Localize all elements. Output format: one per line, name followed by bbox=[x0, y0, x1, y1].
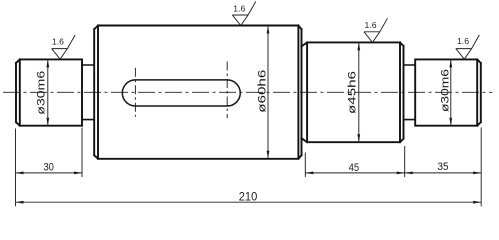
svg-text:ø45h6: ø45h6 bbox=[346, 71, 358, 114]
svg-text:1.6: 1.6 bbox=[233, 4, 245, 14]
dimension text 35 bbox=[438, 161, 449, 173]
extension line at left face bbox=[15, 129, 17, 207]
keyway right arc vertical centerline bbox=[226, 62, 228, 119]
diameter dimension line ø60h6 bbox=[267, 26, 270, 159]
svg-text:1.6: 1.6 bbox=[365, 20, 377, 30]
roughness value 1.6 (right journal) bbox=[457, 36, 469, 46]
extension line at ø60 right face bbox=[304, 153, 306, 178]
label ø60h6 bbox=[257, 70, 269, 113]
surface roughness symbol 1.6 (ø60 body) bbox=[232, 1, 256, 25]
roughness value 1.6 (ø60 body) bbox=[233, 4, 245, 14]
label ø30m6 (right) bbox=[439, 69, 451, 112]
relief neck between left journal and ø60 section bbox=[82, 65, 94, 120]
label ø45h6 bbox=[346, 71, 358, 114]
extension line at end of 30 journal bbox=[81, 128, 83, 178]
svg-text:ø30m6: ø30m6 bbox=[36, 71, 48, 115]
dimension 30 bbox=[16, 172, 83, 175]
dimension text 30 bbox=[43, 162, 54, 174]
dimension text 210 bbox=[239, 190, 258, 204]
svg-text:30: 30 bbox=[43, 162, 54, 174]
svg-text:45: 45 bbox=[349, 162, 360, 174]
surface roughness symbol 1.6 (left journal) bbox=[52, 35, 76, 59]
svg-text:ø60h6: ø60h6 bbox=[257, 70, 269, 113]
roughness value 1.6 (left journal) bbox=[52, 36, 64, 46]
label ø30m6 (left) bbox=[36, 71, 48, 115]
shaft section: left ø30 journal outline bbox=[16, 59, 82, 125]
roughness value 1.6 (ø45 journal) bbox=[365, 20, 377, 30]
extension line at ø45 right face bbox=[404, 146, 406, 177]
dimension text 45 bbox=[349, 162, 360, 174]
dimension 45 bbox=[305, 172, 404, 175]
keyway left arc vertical centerline bbox=[134, 68, 136, 117]
diameter dimension line ø30m6 (left journal) bbox=[46, 59, 49, 125]
surface roughness symbol 1.6 (right journal) bbox=[456, 35, 480, 59]
svg-text:210: 210 bbox=[239, 190, 258, 204]
surface roughness symbol 1.6 (ø45 journal) bbox=[364, 18, 388, 42]
keyway slot on ø60 body bbox=[122, 80, 240, 106]
diameter dimension line ø30m6 (right journal) bbox=[449, 59, 452, 125]
svg-text:1.6: 1.6 bbox=[52, 36, 64, 46]
shaft section: ø60 body outline bbox=[94, 26, 301, 159]
main horizontal centerline bbox=[3, 91, 493, 93]
relief neck between ø45 and right ø30 journal bbox=[404, 65, 416, 120]
diameter dimension line ø45h6 bbox=[357, 42, 360, 142]
shaft section: ø45 journal outline bbox=[302, 42, 404, 142]
svg-text:1.6: 1.6 bbox=[457, 36, 469, 46]
svg-text:ø30m6: ø30m6 bbox=[439, 69, 451, 112]
shaft section: right ø30 journal outline bbox=[415, 59, 481, 125]
svg-text:35: 35 bbox=[438, 161, 449, 173]
extension line at right face bbox=[480, 128, 482, 207]
dimension 210 (overall) bbox=[16, 201, 482, 204]
dimension 35 bbox=[405, 172, 482, 175]
